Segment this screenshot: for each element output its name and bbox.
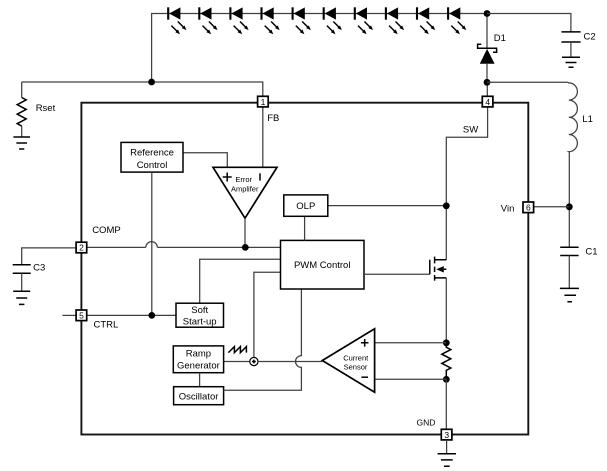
wire: ramp generator to oscillator [199,373,201,387]
pin 6 Vin [523,202,534,213]
wire: OLP output to SW drain line [328,205,447,207]
svg-text:1: 1 [261,97,266,107]
svg-text:PWM Control: PWM Control [294,260,350,271]
svg-text:5: 5 [79,311,84,321]
current sensor + mark [361,339,369,347]
LED 1 [168,7,186,34]
wire: summing node to current sensor output [258,361,322,363]
block OLP [284,195,328,216]
wire: C1 bottom lead [568,256,570,289]
wire: CTRL stub outside pin 5 [62,314,76,316]
capacitor C2 [561,32,580,42]
wire: FB pin down to error amplifier input [262,107,264,167]
svg-text:Generator: Generator [177,360,220,371]
svg-text:FB: FB [267,113,279,124]
wire: GND pin to ground [446,440,448,454]
wire: C2 top lead [487,14,571,32]
op-amp current sensor [322,329,374,392]
junction: sensor - input / GND pin node [443,376,450,383]
junction: error amp output on COMP rail [242,244,249,251]
junction: OLP line on SW drain line [443,202,450,209]
svg-text:COMP: COMP [92,225,121,236]
resistor sense [442,343,451,380]
LED 10 [448,7,466,34]
svg-text:4: 4 [485,97,490,107]
block Ramp Generator [173,346,223,373]
capacitor C1 [560,247,578,255]
wire: C2 bottom lead [570,42,572,57]
svg-text:Error: Error [235,175,252,184]
pin 1 FB [258,96,269,107]
wire: oscillator output to PWM control with hop over sensor line [224,289,302,390]
svg-text:Rset: Rset [36,103,56,114]
block Soft Start-up [176,303,224,327]
pin 5 CTRL [76,310,87,321]
junction: LED string / Rset / FB node [148,79,155,86]
svg-text:Ramp: Ramp [186,348,211,359]
junction: D1 / L1 / SW pin node [484,79,491,86]
current sensor - mark [361,376,368,378]
wire: SW pin down and over to MOSFET drain [446,107,487,260]
wire: CTRL rail from pin 5 to Soft Start-up [87,314,176,316]
wire: PWM control output to MOSFET gate [364,273,430,275]
wire: current sensor - input [375,378,447,380]
wire: Rset node rail to FB drop [22,82,263,96]
LED 9 [417,7,435,34]
inductor L1 [569,83,578,152]
LED 4 [262,7,280,34]
LED 6 [324,7,342,34]
svg-text:OLP: OLP [296,201,315,212]
ground below C3 [13,291,30,304]
wire: OLP to PWM control [304,216,306,240]
svg-text:Control: Control [137,160,168,171]
wire: node down to SW pin 4 [486,82,488,96]
svg-text:Current: Current [343,353,369,362]
pin 3 GND [441,429,452,440]
ground below C1 [560,288,579,301]
svg-text:3: 3 [444,430,449,440]
ground below Rset [13,137,30,149]
diode D1 (schottky) [478,44,497,82]
svg-text:GND: GND [417,418,436,428]
resistor Rset [17,98,26,127]
wire: error amplifier output to COMP rail [244,218,246,247]
svg-text:CTRL: CTRL [94,320,119,331]
LED 3 [230,7,248,34]
svg-text:Soft: Soft [191,305,208,316]
junction: LED string end / C2 / D1 node [484,10,491,17]
wire: C3 bottom lead [21,273,23,291]
ramp waveform symbol [228,347,246,353]
error amplifier + input mark [223,173,232,182]
wire: LED string top rail from left corner to output node [152,14,487,83]
summing junction circle [250,357,258,365]
op-amp error amplifier [213,167,277,218]
ground below GND pin [438,454,456,466]
svg-text:SW: SW [463,125,478,136]
wire: reference control bottom down to CTRL rail [151,172,153,315]
svg-text:Start-up: Start-up [183,316,217,327]
svg-text:Vin: Vin [501,203,515,214]
wire hop: COMP rail over reference line [146,242,158,248]
wire: Vin pin to node [534,206,570,208]
junction: reference line on CTRL rail [148,312,155,319]
ground below C2 [562,57,580,67]
LED 7 [355,7,373,34]
svg-text:Sensor: Sensor [344,362,368,371]
svg-text:D1: D1 [494,33,506,44]
junction: L1 / Vin / C1 node [566,203,573,210]
svg-text:Oscillator: Oscillator [179,391,219,402]
svg-text:Reference: Reference [130,147,174,158]
svg-text:C2: C2 [584,32,596,43]
wire: C3 lead from pin 2 [22,248,76,265]
transistor Q1 power MOSFET [430,257,447,281]
wire: current sensor + input [375,342,447,344]
pin 2 COMP [76,242,87,253]
capacitor C3 [13,265,31,273]
wire: ramp generator output to summing node [224,361,250,363]
junction: sensor + input / source node [443,339,450,346]
block PWM Control [281,240,365,289]
wire: node to L1 top [487,82,569,83]
wire: reference control to error amplifier input [183,153,227,168]
wire: COMP rail left segment [87,246,146,248]
svg-text:6: 6 [526,203,531,213]
block Reference Control [121,142,183,172]
wire: D1 top lead [486,14,488,49]
error amplifier inverting input mark [259,173,261,180]
svg-text:C1: C1 [585,247,597,258]
pin 4 SW [482,96,493,107]
wire: L1 bottom lead down to C1 [568,152,570,248]
wire: soft start-up top to PWM control [200,259,281,303]
svg-text:Amplifer: Amplifer [231,185,259,194]
LED 5 [293,7,311,34]
svg-text:C3: C3 [33,262,45,273]
wire: summing node up to PWM control [254,272,281,357]
svg-text:2: 2 [79,243,84,253]
LED 8 [386,7,404,34]
IC boundary box [81,103,528,435]
svg-text:L1: L1 [582,114,593,125]
wire: Rset top lead [21,82,23,98]
wire: Rset bottom lead [21,126,23,137]
wire: sense node down to GND pin [445,379,447,429]
wire: MOSFET source down to sense node [445,278,447,343]
block Oscillator [174,387,224,405]
wire: COMP rail right segment into PWM [157,246,280,248]
LED 2 [199,7,217,34]
